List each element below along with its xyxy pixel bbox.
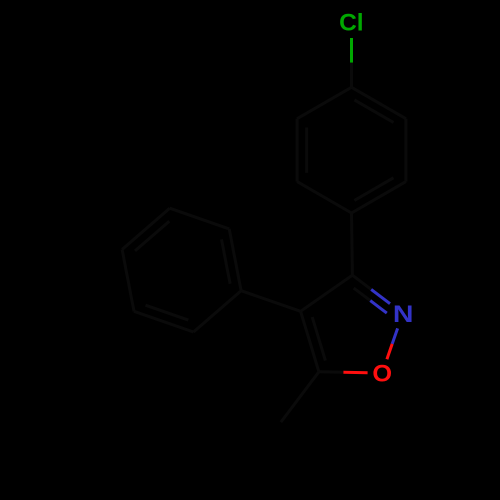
svg-text:Cl: Cl <box>339 10 364 37</box>
svg-text:O: O <box>372 360 392 387</box>
svg-text:N: N <box>393 301 414 328</box>
